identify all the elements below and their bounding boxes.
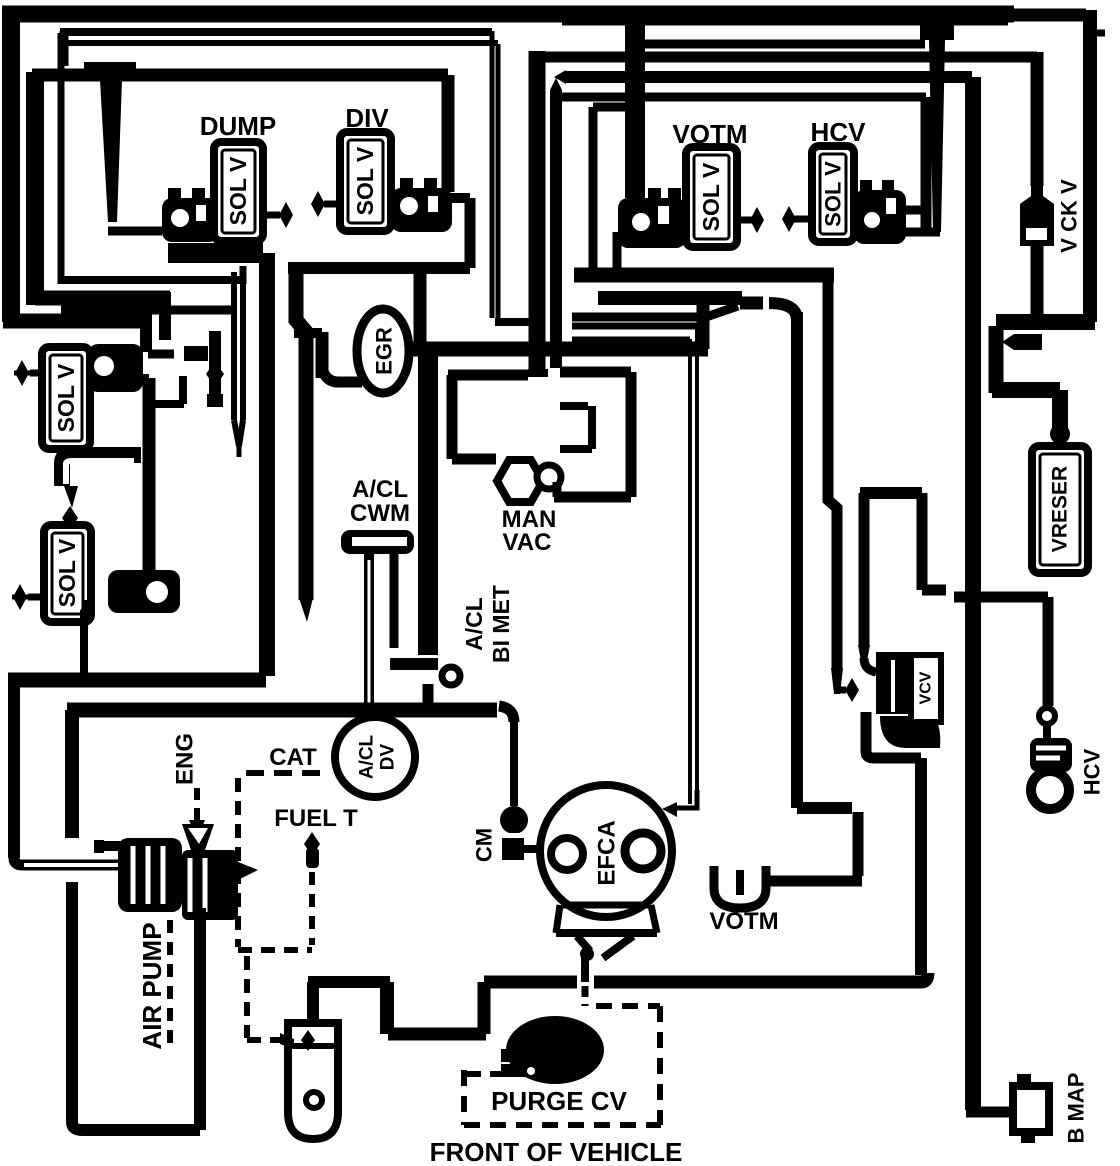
- svg-text:B MAP: B MAP: [1064, 1073, 1089, 1144]
- wire sol1 loop v149: [143, 378, 156, 578]
- wire thin h331: [572, 337, 690, 342]
- wire votm connector drop: [613, 232, 622, 275]
- purge valve body: [506, 1016, 604, 1084]
- wire manvac h459: [452, 454, 496, 465]
- wire div return: [288, 262, 470, 274]
- wire small loop v593: [588, 406, 596, 449]
- svg-text:AIR PUMP: AIR PUMP: [137, 922, 167, 1049]
- wire thin pair v1: [490, 31, 495, 318]
- wire engine feed h865: [14, 858, 176, 865]
- svg-text:CWM: CWM: [350, 500, 410, 527]
- wire top border: [2, 6, 1014, 23]
- wire thin pair elbow: [495, 318, 532, 326]
- wire HCV tee link: [898, 228, 940, 237]
- wire vcv bottom h758: [866, 752, 921, 758]
- wire votm line h808: [797, 802, 852, 814]
- wire right edge stub: [1090, 30, 1105, 37]
- svg-text:FRONT OF VEHICLE: FRONT OF VEHICLE: [430, 1137, 683, 1166]
- wire votm line h881: [762, 876, 862, 887]
- wire purge z v481: [478, 982, 491, 1034]
- wire manvac top h349: [413, 342, 708, 357]
- wire airpump pointer dashed: [167, 920, 173, 1052]
- wire cat dashed v247: [244, 956, 250, 1038]
- wire thin efca elbow: [676, 790, 697, 808]
- reservoir VRESER box: [1032, 446, 1088, 573]
- wire manvac loop h372: [560, 367, 631, 378]
- svg-text:A/CL: A/CL: [357, 734, 378, 779]
- svg-text:SOL V: SOL V: [821, 161, 846, 227]
- wire sol1 loop h404: [144, 400, 184, 408]
- wire manvac v452: [447, 375, 458, 459]
- valve HCV SOL V box: [812, 146, 854, 242]
- hose tube to taper: [231, 272, 237, 420]
- wire votm feed vertical: [625, 10, 645, 198]
- wire thin v697: [695, 326, 699, 798]
- wire v72 drop: [65, 710, 79, 838]
- wire egr drop: [316, 332, 329, 378]
- wire top border second run: [562, 13, 1008, 26]
- wire canister riser: [307, 982, 319, 1024]
- wire thin v690: [688, 339, 692, 804]
- wire vcv loop left v864: [859, 493, 870, 645]
- wire center bundle v538: [529, 51, 546, 372]
- svg-text:A/CL: A/CL: [352, 476, 408, 503]
- svg-text:SOL V: SOL V: [225, 156, 251, 225]
- wire sol1 out arm: [130, 374, 149, 382]
- solenoid DIV connector: [391, 188, 452, 232]
- svg-text:SOL V: SOL V: [54, 538, 80, 607]
- wire bimet elbow: [390, 658, 438, 670]
- svg-text:ENG: ENG: [172, 733, 199, 785]
- wire bundle v309: [296, 266, 306, 600]
- wire div out: [448, 193, 470, 203]
- wire HCV connector drop: [921, 97, 932, 232]
- svg-text:DV: DV: [378, 743, 399, 770]
- wire thin rect bottom: [61, 276, 240, 284]
- wire bottom main h981 right: [594, 973, 928, 982]
- svg-text:PURGE CV: PURGE CV: [491, 1086, 627, 1116]
- wire bundle v269 long: [259, 268, 275, 676]
- wire cat dashed h1040: [247, 1037, 284, 1043]
- wire manvac top left riser: [414, 268, 427, 349]
- wire egr elbow: [322, 368, 362, 382]
- wire mid rect bottom: [35, 291, 170, 306]
- wire h3 top: [64, 40, 498, 46]
- svg-text:CAT: CAT: [269, 744, 317, 771]
- wire long right vertical: [965, 77, 981, 1110]
- svg-text:VAC: VAC: [503, 529, 552, 556]
- wire h708 long: [67, 703, 497, 718]
- port A/CL BI MET: [442, 667, 460, 685]
- fitting MAN VAC port circle: [537, 465, 561, 489]
- svg-text:VCV: VCV: [918, 671, 935, 704]
- wire manvac top right riser: [697, 298, 710, 349]
- arrow HCV vent: [794, 216, 812, 223]
- wire cat dashed h950: [238, 947, 312, 953]
- sensor B MAP: [1013, 1086, 1049, 1132]
- dashed box PURGE CV: [596, 1003, 660, 1009]
- check valve V CK V: [1020, 183, 1054, 246]
- canister: [288, 1023, 338, 1139]
- wire fitting nipple lower: [1014, 334, 1042, 350]
- wire h310: [61, 306, 236, 315]
- wire right edge vertical: [1083, 10, 1097, 322]
- wire manvac loop h497: [554, 492, 631, 503]
- arrow into VRESER: [1050, 424, 1070, 444]
- wire VRESER drop: [1052, 390, 1068, 430]
- valve VOTM SOL V box: [686, 147, 737, 247]
- wire top right corner run: [1008, 9, 1086, 22]
- port HCV circle: [1039, 708, 1055, 724]
- wire left border bottom: [3, 314, 152, 329]
- wire sol1 drop v215: [209, 331, 221, 396]
- wire right corner to fittings: [996, 314, 1095, 330]
- wire h2 stub: [60, 31, 69, 66]
- wire to VRESER horizontal: [992, 382, 1060, 398]
- wire vcv bottom v921: [915, 758, 927, 975]
- wire inner top h1: [645, 40, 925, 49]
- wire left v14 drop: [8, 681, 20, 858]
- solenoid left connector 1: [88, 344, 143, 392]
- wire div out drop: [465, 198, 476, 268]
- wire manvac h375: [448, 370, 528, 381]
- engine air pump assembly: [100, 841, 126, 851]
- wire thin rect rise: [240, 266, 247, 284]
- arrow VOTM vent: [737, 217, 752, 224]
- tee top right: [920, 22, 954, 40]
- motor A/CL CWM: [341, 530, 414, 554]
- fitting MAN VAC hexagon: [497, 460, 543, 502]
- wire center bundle v556: [550, 90, 562, 368]
- wire airpump U bottom: [72, 1122, 200, 1130]
- wire hcv drop v1048: [1043, 597, 1054, 706]
- wire h708 nub corner: [499, 706, 514, 722]
- wire small loop h449: [560, 445, 592, 453]
- wire manvac loop v630: [626, 372, 637, 497]
- valve DIV SOL V box: [340, 132, 391, 231]
- valve left SOL V box 2: [44, 525, 91, 622]
- wire small loop h405: [560, 402, 588, 410]
- svg-text:BI MET: BI MET: [488, 585, 514, 663]
- wire bottom main h981 left: [484, 976, 577, 989]
- wire inner top h2: [530, 52, 1037, 63]
- carburetor EFCA: [540, 785, 672, 917]
- wire dump under h247: [168, 243, 263, 263]
- wire thin rect vertical: [58, 33, 65, 284]
- wire dump rect right: [442, 75, 455, 192]
- wire votm line v797: [791, 312, 803, 808]
- wire to B MAP: [966, 1107, 1014, 1118]
- svg-text:CM: CM: [472, 828, 497, 862]
- wire purge z h982: [308, 976, 390, 988]
- svg-text:SOL V: SOL V: [53, 363, 79, 432]
- svg-text:EFCA: EFCA: [594, 820, 621, 885]
- wire manvac loop port riser: [553, 482, 562, 497]
- wire sol1 loop v183: [179, 376, 187, 404]
- wire V CK V lower vertical: [1031, 246, 1044, 318]
- valve A/CL DV: [335, 717, 415, 797]
- solenoid VOTM connector: [618, 198, 686, 248]
- wire h298: [598, 291, 742, 305]
- wire vcv loop right v922: [917, 493, 928, 590]
- wire bimet thick drop: [418, 349, 438, 655]
- wire hcv link h595: [922, 585, 946, 596]
- wire airpump U right: [194, 908, 206, 1130]
- wire cwm prong right: [390, 554, 399, 648]
- valve left SOL V box 1: [42, 347, 90, 449]
- wire purge z h1037: [388, 1028, 486, 1041]
- wire thin pair v2: [496, 44, 501, 322]
- hose outline tube to sol2: [62, 455, 141, 486]
- svg-text:VOTM: VOTM: [709, 908, 778, 935]
- wire h2 top: [60, 28, 492, 36]
- svg-text:HCV: HCV: [1080, 748, 1105, 795]
- svg-text:A/CL: A/CL: [461, 597, 487, 651]
- svg-text:DUMP: DUMP: [200, 111, 277, 141]
- wire thin h323: [572, 323, 697, 330]
- svg-text:FUEL T: FUEL T: [274, 805, 358, 832]
- wire sol1 right feed: [148, 350, 174, 359]
- wire eng pointer dashed: [194, 788, 200, 820]
- wire votm loop vertical: [589, 107, 598, 275]
- wire inner top h3 long: [566, 71, 972, 83]
- valve HCV body: [1030, 738, 1072, 772]
- wire V CK V upper vertical: [1031, 52, 1044, 186]
- wire cat pointer dashed: [235, 778, 241, 947]
- wire cm vertical: [510, 718, 518, 806]
- svg-text:V CK V: V CK V: [1057, 179, 1082, 253]
- fitting FUEL T: [304, 832, 320, 856]
- wire sol2 hook: [84, 600, 86, 676]
- arrow DUMP vent: [263, 212, 280, 219]
- wire h318: [572, 306, 738, 317]
- solenoid left connector 2: [108, 570, 180, 613]
- wire HCV connector out: [900, 206, 921, 215]
- wire airpump U left: [66, 882, 78, 1122]
- motor VOTM cup: [714, 866, 766, 908]
- carburetor EFCA base: [562, 902, 650, 909]
- solenoid HCV connector: [854, 190, 906, 244]
- svg-text:VRESER: VRESER: [1049, 466, 1072, 552]
- arrow DIV vent: [324, 201, 340, 208]
- wire tee elbow to dump: [108, 227, 162, 236]
- fitting CM: [500, 806, 528, 834]
- wire cwm prong left: [364, 554, 374, 717]
- wire purge z v390: [380, 982, 394, 1034]
- fitting nipple sol1: [184, 346, 208, 361]
- wire fuelt dashed: [309, 872, 315, 945]
- wire mid rect vertical: [26, 72, 44, 305]
- wire votm loop bottom: [574, 268, 834, 283]
- svg-text:SOL V: SOL V: [698, 162, 724, 231]
- wire votm line v862: [853, 812, 864, 876]
- solenoid DUMP connector: [162, 198, 219, 242]
- arrow into VCV: [838, 687, 846, 694]
- wire sol1 thin feed: [159, 292, 171, 340]
- valve DUMP SOL V box: [214, 142, 263, 241]
- EGR valve: [357, 309, 409, 393]
- wire left border vertical: [2, 6, 20, 322]
- wire sol1 top feed: [140, 321, 152, 352]
- svg-text:EGR: EGR: [372, 327, 397, 375]
- wire h298 corner: [769, 303, 797, 320]
- wire efca stem: [580, 947, 594, 961]
- wire inner top h5: [593, 103, 637, 112]
- wire dump rect top: [32, 69, 448, 82]
- svg-text:SOL V: SOL V: [352, 146, 378, 215]
- arrow SOL1 vent: [30, 370, 44, 377]
- wire vcv loop top h493: [860, 487, 922, 499]
- wire dump under drop: [259, 253, 275, 300]
- valve VCV assembly: [864, 658, 876, 672]
- wire vcv feed v828: [828, 275, 837, 670]
- arrow SOL2 vent: [28, 594, 44, 601]
- wire vcv bottom elbow: [861, 712, 872, 752]
- wire h681: [8, 673, 266, 688]
- tee top left: [84, 62, 136, 80]
- wire inner top h4: [553, 93, 926, 102]
- wire fitting drop: [989, 326, 1004, 393]
- wire bimet down elbow: [423, 684, 434, 708]
